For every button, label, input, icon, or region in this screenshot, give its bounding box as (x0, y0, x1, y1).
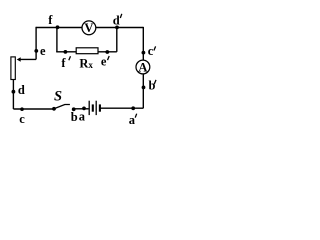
node e dot (34, 49, 38, 53)
node d-prime dot (115, 26, 119, 30)
node f dot (56, 25, 60, 29)
node e-prime dot (105, 50, 109, 54)
node f-prime dot (64, 50, 68, 54)
battery plate long 1 (88, 101, 90, 115)
svg-text:A: A (138, 60, 147, 74)
ammeter A circle (136, 60, 150, 74)
label c-prime tick (154, 46, 156, 50)
wire bottom segment battery to right corner (100, 107, 143, 109)
battery plate short thick 2 (99, 104, 101, 111)
wire left vertical from top corner down to wiper (35, 27, 37, 60)
wire right vertical lower segment (142, 74, 144, 108)
label e-prime tick (108, 56, 110, 60)
node a dot (82, 107, 86, 111)
label d-prime tick (120, 14, 122, 18)
svg-text:V: V (84, 21, 93, 35)
svg-text:c: c (148, 44, 154, 58)
node a-prime dot (131, 106, 135, 110)
wire bottom segment switch b to battery (74, 108, 89, 110)
svg-text:d: d (18, 83, 25, 97)
rheostat (slide resistor) box (11, 57, 15, 80)
svg-text:e: e (40, 44, 46, 58)
node d dot (12, 90, 16, 94)
wire middle row right segment (98, 51, 117, 53)
svg-text:e: e (101, 55, 107, 69)
switch pivot dot (52, 107, 56, 111)
svg-text:d: d (113, 14, 120, 28)
wire d-prime vertical drop (116, 28, 118, 52)
resistor Rx box (76, 48, 98, 54)
battery plate short thick 1 (92, 104, 94, 111)
wire right vertical upper segment (142, 27, 144, 60)
node b-prime dot (142, 86, 146, 90)
wire bottom-left segment to switch pivot (13, 108, 54, 110)
battery plate long 2 (95, 101, 97, 115)
svg-text:b: b (149, 79, 156, 93)
label f-prime tick (69, 56, 71, 60)
node c dot (20, 107, 24, 111)
wire f vertical drop to middle row (56, 28, 58, 52)
wire top-right segment voltmeter to corner (96, 27, 144, 29)
svg-text:S: S (54, 89, 62, 105)
wire middle row left segment (56, 51, 76, 53)
svg-text:a: a (79, 109, 86, 123)
label b-prime tick (154, 80, 156, 84)
wire top-left segment f to voltmeter (36, 27, 82, 29)
wire wiper arm horizontal (20, 58, 36, 60)
svg-text:c: c (19, 112, 25, 126)
voltmeter U circle (82, 21, 96, 35)
node c-prime dot (142, 51, 146, 55)
label a-prime tick (135, 114, 137, 118)
rheostat wiper arrowhead (17, 57, 21, 61)
wire rheostat bottom lead (12, 80, 14, 109)
switch S blade (54, 105, 70, 109)
node b dot (72, 107, 76, 111)
svg-text:a: a (129, 113, 136, 127)
svg-text:b: b (71, 110, 78, 124)
